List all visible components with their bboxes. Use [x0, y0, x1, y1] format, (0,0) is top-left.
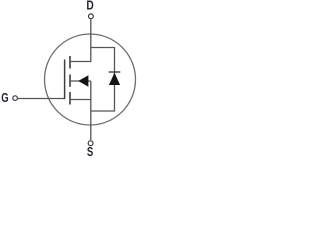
- svg-text:S: S: [87, 144, 94, 159]
- svg-text:D: D: [86, 0, 93, 13]
- svg-text:G: G: [1, 90, 8, 105]
